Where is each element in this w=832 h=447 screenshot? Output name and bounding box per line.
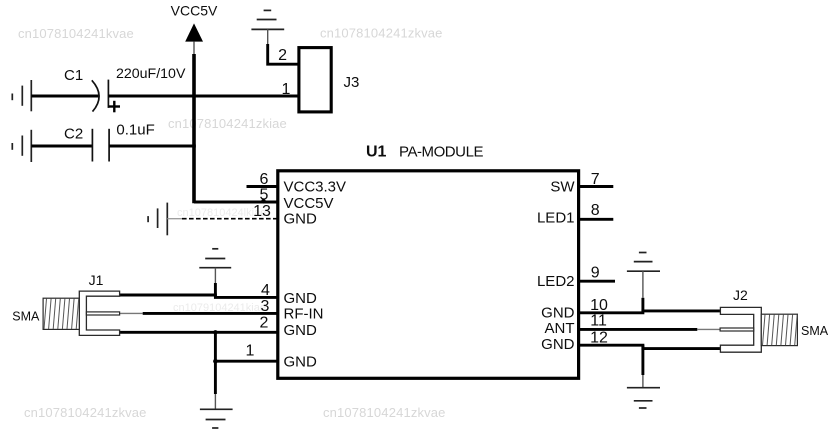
ground (below pin 12) [627, 388, 660, 408]
svg-text:cn1078104241zkvae: cn1078104241zkvae [24, 405, 147, 420]
ground (left of C1) [12, 80, 31, 111]
J2 center pin [720, 328, 754, 331]
svg-text:VCC3.3V: VCC3.3V [284, 179, 347, 196]
svg-text:GND: GND [541, 305, 575, 322]
wire VCC5V vertical [192, 54, 196, 203]
svg-text:SMA: SMA [801, 324, 829, 338]
wire C2 left [31, 145, 92, 148]
pin 2 wire [120, 331, 279, 334]
svg-text:SW: SW [550, 179, 575, 196]
connector J3 [299, 48, 331, 112]
wire C1 right to J3 pin1 [108, 95, 299, 98]
svg-text:J2: J2 [733, 287, 748, 303]
svg-text:3: 3 [261, 298, 270, 315]
svg-text:6: 6 [260, 171, 269, 188]
pin 8 stub [577, 218, 613, 221]
svg-text:C2: C2 [64, 126, 83, 143]
J1 threaded barrel (hatched) [43, 298, 79, 329]
svg-text:11: 11 [590, 313, 607, 330]
svg-text:2: 2 [260, 315, 269, 332]
ground (left of C2) [12, 130, 31, 162]
svg-text:9: 9 [591, 265, 600, 282]
svg-text:cn1078104241zkvae: cn1078104241zkvae [323, 405, 446, 420]
svg-text:PA-MODULE: PA-MODULE [399, 144, 483, 161]
pin 3 RF-IN wire thin [120, 312, 143, 314]
ground (left of pin 13) [148, 203, 167, 236]
J2 threaded barrel (hatched) [761, 314, 797, 345]
J1 center pin [86, 312, 119, 315]
junction dot pin2 [213, 330, 217, 334]
svg-text:4: 4 [261, 282, 270, 299]
svg-text:cn1078104241zkvae: cn1078104241zkvae [320, 26, 443, 41]
svg-text:12: 12 [590, 330, 608, 347]
svg-text:U1: U1 [366, 144, 387, 161]
pin 13 dashed wire to ground [167, 218, 182, 220]
svg-text:10: 10 [590, 297, 608, 314]
ground (below J1) [200, 409, 233, 428]
junction dot pin1 [213, 359, 218, 364]
module U1 box [278, 171, 579, 378]
pin 9 stub [577, 280, 615, 283]
svg-text:13: 13 [253, 203, 271, 220]
svg-text:GND: GND [284, 211, 318, 228]
svg-text:SMA: SMA [12, 310, 40, 324]
svg-text:GND: GND [284, 322, 318, 339]
power flag VCC5V arrow [185, 23, 203, 41]
connector J1 body [79, 291, 119, 335]
ground (above pin 10) [627, 253, 660, 272]
C1 plus sign [109, 105, 120, 107]
svg-text:J3: J3 [344, 74, 360, 91]
svg-text:cn1078104241zkiae: cn1078104241zkiae [168, 116, 287, 131]
capacitor C1 (polarized) [92, 80, 99, 111]
svg-text:GND: GND [284, 290, 318, 307]
wire ground to J3 pin2 [267, 29, 269, 44]
svg-text:0.1uF: 0.1uF [116, 122, 154, 139]
svg-text:1: 1 [246, 343, 255, 360]
pin 4 wire [120, 295, 279, 297]
pin 12 wire [577, 345, 720, 348]
svg-text:VCC5V: VCC5V [284, 195, 334, 212]
svg-text:7: 7 [591, 171, 600, 188]
svg-text:GND: GND [284, 354, 318, 371]
wire ground to pin 10 [642, 271, 644, 298]
svg-text:J1: J1 [89, 272, 104, 288]
svg-text:LED2: LED2 [537, 273, 575, 290]
pin 11 ANT wire [577, 328, 697, 331]
svg-text:ANT: ANT [545, 320, 575, 337]
junction dot pin5 [261, 199, 266, 204]
wire ground to pin 4 [214, 268, 216, 283]
svg-text:8: 8 [591, 202, 600, 219]
pin 10 wire [577, 311, 720, 313]
svg-text:2: 2 [278, 47, 287, 64]
connector J2 body [720, 307, 761, 352]
pin 6 stub [247, 185, 280, 188]
svg-text:1: 1 [282, 81, 291, 98]
pin 3 RF-IN wire [143, 312, 279, 315]
svg-text:LED1: LED1 [537, 210, 575, 227]
svg-text:220uF/10V: 220uF/10V [116, 66, 186, 82]
ground (above J3) [251, 10, 284, 29]
pin 5 wire from VCC5V [194, 201, 279, 204]
pin 7 stub [577, 185, 613, 188]
wire pin 12 to ground [641, 345, 644, 375]
svg-text:C1: C1 [64, 67, 83, 84]
wire C1 left [31, 95, 99, 98]
ground (above pin 4) [199, 249, 231, 268]
wire C2 right to VCC5V line [109, 145, 196, 148]
capacitor C2 [91, 129, 93, 162]
svg-text:GND: GND [541, 336, 575, 353]
svg-text:RF-IN: RF-IN [284, 306, 324, 323]
wire down to ground (J1 side) [214, 332, 217, 394]
svg-text:VCC5V: VCC5V [171, 3, 218, 19]
svg-text:cn1078104241kvae: cn1078104241kvae [18, 26, 134, 41]
pin 1 wire [215, 360, 278, 363]
